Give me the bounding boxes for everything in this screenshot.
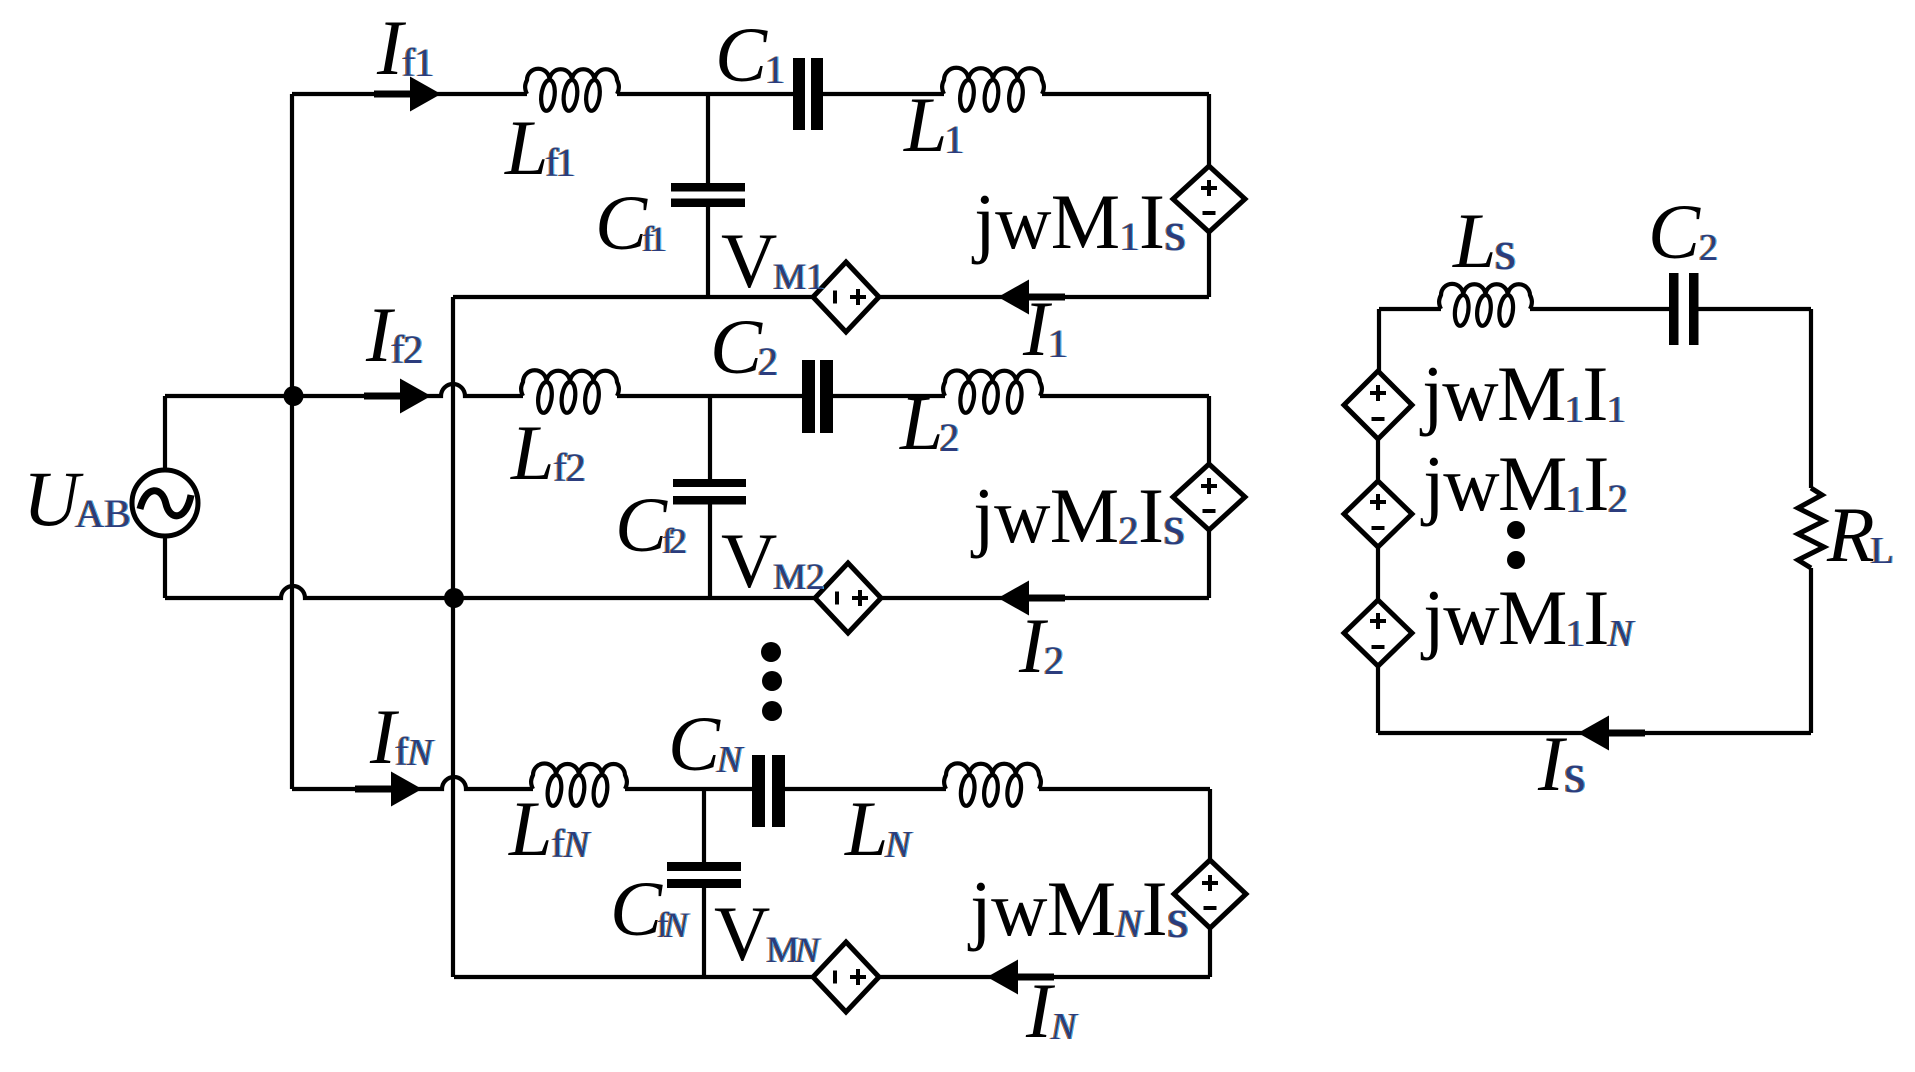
junction dot node A [284, 386, 304, 406]
svg-text:M: M [1498, 574, 1567, 661]
svg-text:w: w [1443, 440, 1499, 527]
svg-text:2: 2 [939, 415, 959, 460]
wire branch2 right vertical [1207, 396, 1211, 598]
svg-text:2: 2 [1044, 638, 1064, 683]
capacitor C_2 [802, 360, 815, 433]
arrow I_2 [998, 581, 1029, 616]
svg-text:M: M [1047, 865, 1116, 952]
dependent source V_M1 [813, 262, 879, 332]
svg-text:s: s [1164, 201, 1186, 263]
svg-text:N: N [884, 824, 913, 866]
svg-text:C: C [668, 700, 721, 787]
svg-text:C: C [715, 11, 768, 98]
svg-text:L: L [510, 409, 554, 496]
svg-text:1: 1 [1565, 389, 1584, 431]
svg-text:M: M [1051, 178, 1120, 265]
svg-text:j: j [971, 178, 996, 265]
wire branch1 top [292, 92, 1209, 96]
inductor L_f2 [521, 370, 619, 413]
svg-text:2: 2 [669, 521, 687, 561]
ellipsis dots right [1507, 521, 1525, 539]
svg-text:2: 2 [566, 445, 586, 490]
wire branchN top with hop over x=454 [292, 777, 533, 789]
svg-text:1: 1 [414, 40, 434, 85]
svg-text:j: j [1419, 350, 1444, 437]
svg-text:I: I [1583, 440, 1609, 527]
sine symbol inside source [140, 491, 191, 516]
dependent source jwM1I1 [1344, 371, 1412, 439]
wire branchN right vertical [1208, 789, 1212, 977]
svg-text:I: I [1582, 350, 1608, 437]
capacitor C_fN [702, 789, 706, 977]
svg-text:L: L [899, 379, 943, 466]
svg-text:M1: M1 [773, 257, 824, 298]
svg-text:C: C [1648, 188, 1701, 275]
arrow I_f2 [400, 379, 431, 414]
svg-text:V: V [714, 890, 770, 977]
svg-text:j: j [1420, 574, 1445, 661]
capacitor C_2 secondary [1669, 273, 1679, 345]
svg-text:M: M [1050, 472, 1119, 559]
wire: top bus to branch2 with hop over x=453 [165, 384, 523, 396]
svg-text:N: N [1050, 1006, 1079, 1048]
capacitor C_f2 [708, 396, 712, 598]
svg-text:V: V [721, 517, 777, 604]
svg-text:w: w [995, 178, 1051, 265]
svg-text:V: V [721, 217, 777, 304]
wire branch1 return [453, 295, 1209, 299]
svg-text:1: 1 [556, 140, 576, 185]
arrow I_fN [391, 772, 422, 807]
svg-text:w: w [1443, 574, 1499, 661]
wire: return vertical x=453 [451, 297, 455, 977]
svg-text:N: N [1115, 901, 1145, 946]
wire branch2 top after coil [617, 394, 1209, 398]
svg-text:N: N [716, 739, 745, 781]
svg-text:1: 1 [1048, 321, 1068, 366]
svg-text:2: 2 [1119, 508, 1139, 553]
svg-text:j: j [1420, 440, 1445, 527]
ellipsis dots left [761, 642, 781, 662]
wire: source top bus [163, 396, 167, 598]
wire secondary bottom [1378, 731, 1811, 735]
svg-text:L: L [1452, 197, 1496, 284]
svg-text:I: I [1139, 178, 1165, 265]
dependent source V_M2 [815, 563, 881, 633]
inductor L_f1 [525, 69, 619, 111]
svg-text:M: M [1497, 350, 1566, 437]
svg-text:s: s [1163, 495, 1185, 557]
svg-text:M: M [1498, 440, 1567, 527]
wire: left vertical bus x=292 [290, 94, 294, 789]
inductor L_2 [943, 370, 1042, 412]
svg-text:s: s [1494, 220, 1516, 282]
capacitor C_N [752, 755, 765, 827]
svg-text:1: 1 [649, 219, 667, 259]
svg-text:s: s [1564, 743, 1586, 805]
svg-text:L: L [1871, 530, 1894, 572]
dependent source jwM1I2 [1344, 481, 1412, 547]
wire secondary right vertical [1809, 309, 1813, 733]
svg-text:L: L [903, 81, 947, 168]
dependent source V_MN [813, 942, 879, 1012]
svg-text:j: j [967, 865, 992, 952]
voltage source U_AB (circle) [132, 470, 198, 536]
svg-text:1: 1 [1120, 214, 1140, 259]
svg-text:AB: AB [75, 491, 131, 536]
svg-text:I: I [1583, 574, 1609, 661]
svg-text:I: I [1142, 865, 1168, 952]
svg-text:L: L [508, 785, 552, 872]
svg-text:N: N [563, 824, 592, 866]
svg-text:M2: M2 [773, 557, 824, 598]
svg-text:2: 2 [1608, 476, 1628, 521]
inductor L_N [944, 763, 1041, 805]
wire secondary left vertical [1378, 309, 1379, 733]
svg-text:N: N [1607, 613, 1636, 655]
svg-text:L: L [504, 104, 548, 191]
svg-text:s: s [1167, 888, 1189, 950]
capacitor C_f1 [706, 94, 710, 297]
svg-text:L: L [844, 785, 888, 872]
svg-text:N: N [794, 930, 821, 970]
wire branch1 right vertical [1207, 94, 1211, 297]
wire: bottom bus y=598 with hop over x=293 [165, 586, 815, 598]
arrow I_f1 [410, 77, 441, 112]
svg-text:2: 2 [1699, 227, 1718, 269]
inductor L_s [1439, 284, 1532, 326]
svg-text:1: 1 [944, 117, 964, 162]
dependent source jwM2Is [1173, 464, 1245, 530]
svg-text:1: 1 [765, 47, 785, 92]
svg-text:1: 1 [1566, 613, 1585, 655]
svg-text:I: I [1138, 472, 1164, 559]
svg-text:w: w [991, 865, 1047, 952]
dependent source jwM1Is [1173, 166, 1245, 232]
resistor R_L [1798, 488, 1824, 568]
svg-text:w: w [1442, 350, 1498, 437]
svg-text:2: 2 [758, 339, 778, 384]
svg-text:1: 1 [1566, 479, 1585, 521]
svg-text:N: N [663, 905, 690, 945]
svg-text:1: 1 [1607, 389, 1626, 431]
inductor L_fN [531, 764, 627, 806]
dependent source jwM1IN [1344, 600, 1412, 666]
svg-text:j: j [970, 472, 995, 559]
wire secondary top [1379, 307, 1811, 311]
inductor L_1 [942, 68, 1044, 111]
wire branchN return [454, 975, 1210, 979]
svg-text:N: N [406, 732, 435, 774]
svg-text:R: R [1826, 491, 1875, 578]
dependent source jwMNIs [1174, 860, 1246, 928]
svg-text:w: w [994, 472, 1050, 559]
svg-text:C: C [710, 303, 763, 390]
arrow I_1 [998, 280, 1029, 315]
junction dot bottom bus [444, 588, 464, 608]
svg-text:2: 2 [403, 327, 423, 372]
arrow I_N [987, 960, 1018, 995]
capacitor C_1 [793, 58, 805, 130]
arrow I_s [1578, 716, 1609, 751]
